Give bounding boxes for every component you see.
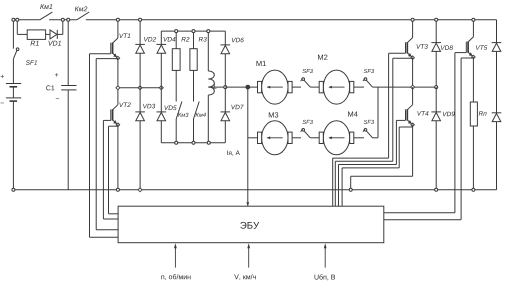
- label VD8: [441, 45, 445, 49]
- wire left column to battery: [12, 59, 14, 84]
- wire VT2 collector: [117, 88, 119, 105]
- junction box bottom rail L: [207, 141, 210, 144]
- wire M4 to SF3d: [354, 137, 364, 139]
- wire VT2 emitter sense lead: [109, 126, 119, 214]
- wire R1 to VD1: [46, 33, 50, 35]
- label M1: [257, 61, 262, 66]
- diode VD5: [157, 112, 167, 121]
- ECU box ЭБУ: [118, 206, 384, 243]
- motor M1: [258, 70, 293, 104]
- label battery plus: [1, 75, 4, 78]
- diode VD11 far right lower: [492, 113, 502, 122]
- label Km2: [75, 6, 79, 11]
- label Km3: [178, 113, 182, 117]
- wire M3 to SF3c: [292, 137, 301, 139]
- label C1 plus: [55, 73, 58, 76]
- wire box left rail middle: [160, 53, 162, 112]
- capacitor C1: [61, 86, 76, 90]
- switch Km3 blade: [176, 102, 182, 120]
- wire L top: [207, 31, 209, 71]
- label M2: [318, 55, 323, 60]
- wire box right rail bottom: [224, 121, 226, 143]
- junction top bus left end: [12, 18, 15, 21]
- wire C1 column upper: [67, 20, 69, 86]
- wire VD2 to midpoint: [139, 53, 141, 88]
- wire motor join vertical: [377, 87, 379, 138]
- wire VT2 gate lead: [103, 120, 118, 219]
- junction top bus VT3 collector: [411, 18, 414, 21]
- wire R1 branch left drop: [17, 20, 27, 35]
- wire Km3 to bottom rail: [175, 119, 177, 143]
- wire box left rail bottom: [160, 121, 162, 143]
- wire R3 top: [193, 31, 195, 49]
- motor M4: [319, 121, 354, 155]
- wire VD3 to bottom bus: [139, 121, 141, 190]
- wire VT1 emitter to midpoint: [117, 58, 119, 88]
- label n ob/min: [161, 275, 164, 279]
- transistor VT2: [111, 105, 120, 127]
- label Km1: [40, 4, 44, 9]
- motor M2: [319, 70, 354, 104]
- transistor VT5: [466, 37, 475, 59]
- wire L tap to right rail: [208, 86, 225, 88]
- wire bottom bus: [13, 189, 496, 191]
- diode VD4: [157, 44, 167, 53]
- input arrow V speed: [247, 243, 250, 267]
- diode VD1: [50, 30, 57, 39]
- wire VD8 to midpoint: [435, 51, 437, 87]
- wire top bus segment right of Km2: [86, 19, 497, 21]
- wire VT3 emitter to midpoint: [412, 58, 414, 88]
- wire VT2 emitter to bottom bus: [117, 125, 119, 190]
- junction top bus VD8: [435, 18, 438, 21]
- label VT4: [417, 111, 421, 115]
- transistor VT1: [111, 38, 120, 60]
- label V km/h: [234, 274, 239, 279]
- wire VT4 emitter to bottom bus: [351, 125, 413, 190]
- resistor R1: [27, 30, 45, 40]
- junction box bottom rail R2: [175, 141, 178, 144]
- label SF1: [26, 60, 30, 65]
- junction VD2-VD3 midpoint: [138, 86, 142, 90]
- junction top bus R1 branch: [16, 18, 19, 21]
- wire VT1 gate lead: [90, 54, 119, 238]
- label SF3c: [302, 120, 306, 124]
- label SF3a: [302, 69, 306, 73]
- diode VD9: [431, 112, 441, 121]
- diode VD7: [221, 112, 231, 121]
- label VT5: [476, 45, 480, 49]
- wire SF3c to M4: [310, 137, 319, 139]
- wire VD2 top: [139, 20, 141, 45]
- wire R2 to Km3: [175, 70, 177, 101]
- junction bottom bus Rp: [472, 188, 475, 191]
- diode VD8: [431, 43, 441, 52]
- wire VT1 emitter sense lead: [96, 59, 118, 230]
- wire L to bottom rail: [207, 95, 209, 143]
- wire far right column top: [496, 20, 498, 43]
- wire box right rail lower: [224, 87, 226, 112]
- breaker SF1 blade: [13, 48, 19, 59]
- wire VT4 emitter sense lead: [342, 127, 413, 206]
- wire M2 to SF3b: [354, 86, 364, 88]
- label battery minus: [1, 102, 4, 104]
- label VT3: [417, 44, 421, 48]
- wire middle rail left segment: [118, 87, 161, 89]
- label Ubp V: [315, 275, 319, 280]
- label VD1: [49, 41, 54, 46]
- diode VD3: [135, 112, 145, 121]
- breaker SF3a blade: [301, 78, 311, 87]
- wire SF3d to join: [373, 137, 379, 139]
- wire VT4 gate lead: [339, 120, 406, 206]
- transistor VT4: [406, 105, 415, 127]
- battery GB cell 1: [6, 84, 21, 87]
- wire C1 column lower: [67, 90, 69, 190]
- diode VD10 far right upper: [492, 43, 502, 52]
- label VD3: [143, 104, 147, 108]
- wire VD9 to bottom bus: [435, 121, 437, 190]
- wire node branch to M3: [248, 137, 258, 139]
- junction bottom bus VD3: [138, 188, 142, 192]
- switch Km2 blade: [77, 12, 89, 20]
- junction top bus C1: [67, 18, 70, 21]
- label VD2: [144, 37, 148, 41]
- label M3: [269, 112, 274, 117]
- switch Km1 blade: [40, 12, 53, 20]
- junction VT1-VT2 midpoint: [116, 86, 120, 90]
- node armature current tap: [245, 85, 250, 90]
- junction top bus VD1 branch: [61, 18, 64, 21]
- junction box bottom rail R3: [192, 141, 195, 144]
- breaker SF3b blade: [363, 78, 373, 87]
- wire far right column middle: [496, 51, 498, 112]
- label R3: [199, 37, 203, 41]
- wire VD1 branch right rise: [57, 20, 63, 35]
- wire VT1 collector: [117, 20, 119, 38]
- inductor L: [208, 71, 214, 95]
- wire node down to M3 level: [247, 87, 249, 138]
- wire far right column bottom: [496, 122, 498, 190]
- wire VT3 emitter sense lead: [335, 58, 412, 206]
- junction top bus VD2: [139, 18, 142, 21]
- wire midpoint to VD3: [139, 88, 141, 112]
- junction VT3-VT4 midpoint: [411, 85, 415, 89]
- label R1: [31, 41, 36, 46]
- wire box bottom rail: [161, 142, 225, 144]
- wire Km4 to bottom rail: [193, 119, 195, 143]
- label VD5: [164, 106, 168, 110]
- junction box top rail L: [207, 30, 210, 33]
- wire box right rail middle: [224, 54, 226, 87]
- label VD6: [232, 38, 236, 42]
- junction VD8-VD9 midpoint: [435, 86, 438, 89]
- junction bottom bus left end: [12, 188, 15, 191]
- wire SF3b to join: [373, 86, 379, 88]
- label SF3d: [364, 120, 368, 124]
- label ЭБУ: [240, 222, 246, 229]
- label Ia A: [226, 151, 229, 155]
- label VT2: [119, 103, 123, 107]
- junction VD6-VD7 midpoint: [224, 86, 227, 89]
- breaker SF3c blade: [301, 129, 311, 138]
- wire VT5 gate lead: [384, 53, 467, 213]
- wire R2 top: [175, 31, 177, 49]
- wire box top rail: [161, 30, 225, 32]
- diode VD2: [135, 44, 145, 53]
- label Rp: [479, 111, 483, 115]
- input arrow n rpm: [174, 243, 177, 267]
- wire SF3a to M2: [310, 86, 319, 88]
- label C1: [46, 85, 50, 90]
- label M4: [348, 111, 353, 116]
- junction bottom bus VD9: [435, 188, 438, 191]
- resistor Rp: [470, 102, 477, 126]
- label SF3b: [364, 69, 368, 73]
- transistor VT3: [406, 38, 415, 60]
- input arrow U battery: [324, 243, 327, 267]
- junction top bus VT5 collector: [472, 18, 475, 21]
- wire Rp to bottom bus: [472, 126, 474, 190]
- wire midpoint to VD9: [435, 87, 437, 112]
- wire VT4 collector: [412, 87, 414, 105]
- resistor R2: [172, 49, 180, 71]
- label C1 minus: [56, 97, 59, 99]
- wire top bus segment Km1 left: [13, 19, 39, 21]
- wire node to M1: [225, 86, 257, 88]
- battery GB cell 2: [6, 98, 21, 101]
- wire VT5 emitter to Rp: [472, 57, 474, 102]
- junction box top rail R2: [175, 30, 178, 33]
- wire left column upper: [12, 20, 14, 49]
- label R2: [181, 37, 185, 41]
- label Km4: [196, 113, 200, 117]
- wire VT5 emitter sense lead: [384, 58, 474, 220]
- diode VD6: [221, 45, 231, 54]
- label VD7: [231, 105, 235, 109]
- wire R3 to Km4: [193, 70, 195, 101]
- junction bottom bus VT4 return: [349, 188, 352, 191]
- wire middle rail right segment: [378, 86, 436, 88]
- junction box top rail R3: [192, 30, 195, 33]
- switch Km4 blade: [194, 102, 200, 120]
- wire left column lower: [12, 101, 14, 190]
- wire battery link: [12, 87, 14, 98]
- wire top bus segment between Km1 and Km2: [49, 19, 77, 21]
- wire VD8 top: [435, 20, 437, 43]
- wire box right rail top: [224, 31, 226, 45]
- junction bottom bus VT2 emitter: [116, 188, 119, 191]
- resistor R3: [190, 49, 197, 71]
- wire Ia sense to ECU: [246, 138, 249, 206]
- wire M1 to SF3a: [292, 86, 301, 88]
- breaker SF3d blade: [363, 129, 373, 138]
- wire box left rail top: [160, 31, 162, 44]
- junction VD4-VD5 midpoint: [159, 86, 163, 90]
- wire VT3 gate lead: [333, 53, 406, 206]
- junction top bus VT1 collector: [116, 18, 119, 21]
- wire VT5 collector: [472, 20, 474, 37]
- label L: [214, 84, 217, 88]
- label VT1: [119, 34, 123, 38]
- label VD4: [164, 37, 168, 41]
- wire VT3 collector: [412, 20, 414, 38]
- label VD9: [443, 112, 447, 116]
- motor M3: [258, 121, 293, 155]
